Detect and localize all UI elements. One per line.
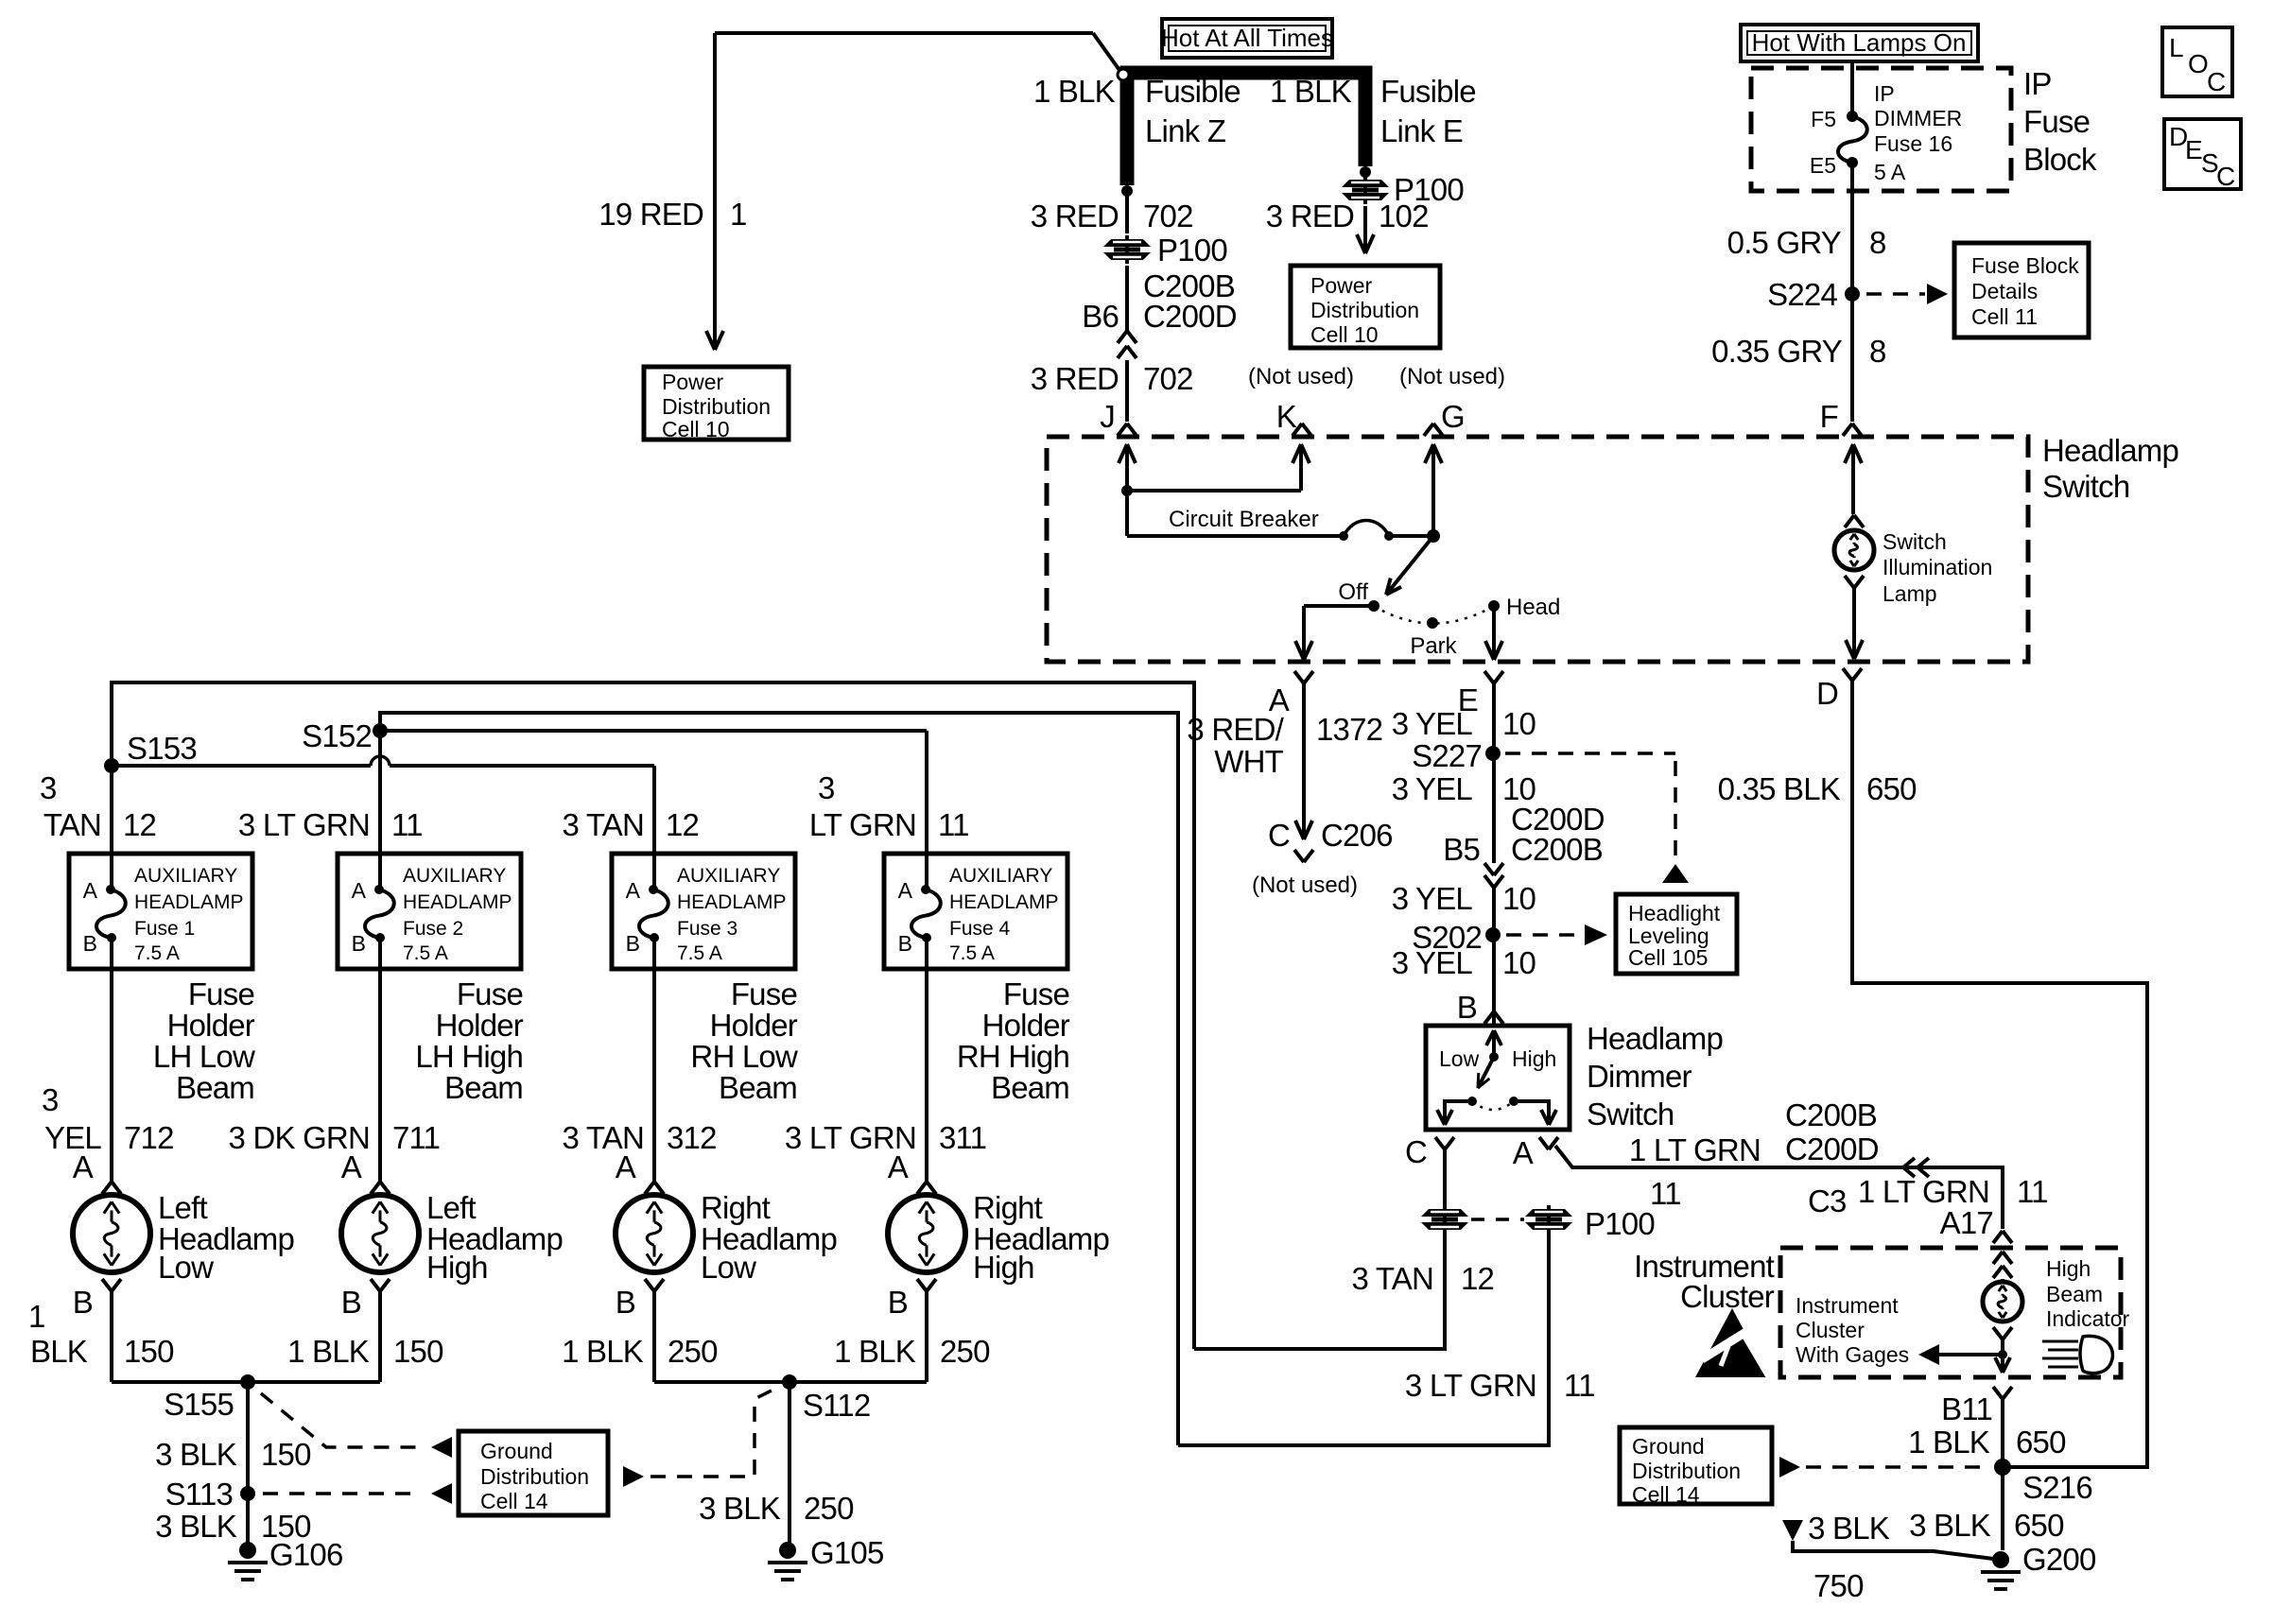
wire down to circuit breaker line bbox=[1125, 491, 1129, 536]
instrument cluster dashed outline bbox=[1780, 1248, 2121, 1377]
svg-text:WHT: WHT bbox=[1214, 744, 1283, 779]
wire from lamp to With Gages node bbox=[2001, 1339, 2004, 1369]
header box Hot At All Times bbox=[1162, 19, 1332, 58]
wire 1 BLK from headlamp 4 bbox=[925, 1291, 928, 1382]
svg-text:Headlamp: Headlamp bbox=[1587, 1021, 1723, 1056]
wire from fuse 1 to headlamp bbox=[110, 969, 113, 1182]
svg-text:12: 12 bbox=[123, 807, 156, 842]
terminal A17 chevron into cluster bbox=[1993, 1231, 2003, 1243]
wire Off contact to terminal A bbox=[1304, 604, 1374, 608]
splice S224 bbox=[1845, 286, 1860, 302]
svg-text:C200B: C200B bbox=[1785, 1097, 1877, 1132]
terminal F arrow inside switch bbox=[1851, 446, 1855, 514]
svg-text:Fuse 2: Fuse 2 bbox=[403, 918, 463, 940]
svg-text:3 BLK: 3 BLK bbox=[1909, 1508, 1991, 1543]
svg-text:Low: Low bbox=[701, 1250, 756, 1285]
svg-text:10: 10 bbox=[1502, 945, 1536, 980]
svg-text:Fuse Block: Fuse Block bbox=[1971, 253, 2079, 278]
svg-text:A: A bbox=[626, 878, 641, 903]
switch arm with arrowhead toward Off bbox=[1386, 536, 1433, 595]
svg-text:P100: P100 bbox=[1157, 233, 1227, 268]
svg-text:Holder: Holder bbox=[982, 1008, 1070, 1043]
svg-text:11: 11 bbox=[1564, 1368, 1595, 1403]
svg-text:Instrument: Instrument bbox=[1796, 1293, 1899, 1318]
svg-text:TAN: TAN bbox=[43, 807, 101, 842]
dashed reference from S227 to headlight leveling bbox=[1505, 752, 1675, 755]
terminal B11 chevron bbox=[1993, 1387, 2003, 1399]
dashed reference arrow to S216 bbox=[1779, 1457, 1800, 1477]
svg-text:3 RED: 3 RED bbox=[1266, 199, 1354, 233]
svg-text:3 LT GRN: 3 LT GRN bbox=[238, 807, 370, 842]
fuse holder box 4 AUXILIARY HEADLAMP Fuse 4 7.5 A bbox=[884, 854, 1067, 969]
wire Head contact to terminal E bbox=[1492, 606, 1496, 656]
wire from fuse 3 to headlamp bbox=[652, 969, 656, 1182]
svg-text:12: 12 bbox=[1461, 1261, 1494, 1296]
dimmer contacts low/high with dotted arc bbox=[1467, 1097, 1477, 1106]
terminal G arrow inside switch bbox=[1431, 446, 1435, 536]
svg-text:Switch: Switch bbox=[2042, 469, 2129, 504]
svg-text:3 BLK: 3 BLK bbox=[699, 1491, 781, 1526]
svg-text:Cell 14: Cell 14 bbox=[480, 1489, 548, 1513]
wire 19 RED circuit 1 feed from hot bus bbox=[715, 31, 1093, 35]
svg-text:(Not used): (Not used) bbox=[1252, 872, 1358, 898]
svg-text:Dimmer: Dimmer bbox=[1587, 1059, 1692, 1094]
svg-text:8: 8 bbox=[1869, 334, 1886, 369]
svg-text:Fusible: Fusible bbox=[1380, 74, 1476, 109]
svg-text:O: O bbox=[2188, 49, 2209, 78]
svg-text:1: 1 bbox=[730, 197, 747, 232]
dimmer switch arm pointing to low bbox=[1478, 1057, 1494, 1088]
svg-text:Cell 14: Cell 14 bbox=[1632, 1482, 1700, 1507]
dashed reference S113 to ground distribution bbox=[263, 1492, 416, 1495]
svg-text:1 BLK: 1 BLK bbox=[562, 1334, 644, 1369]
svg-text:3: 3 bbox=[42, 1082, 59, 1117]
svg-text:250: 250 bbox=[804, 1491, 854, 1526]
svg-text:B: B bbox=[888, 1285, 908, 1320]
wire 3 RED 702 lower to terminal J bbox=[1125, 360, 1129, 422]
svg-text:(Not used): (Not used) bbox=[1248, 364, 1354, 389]
svg-text:Holder: Holder bbox=[167, 1008, 255, 1043]
svg-text:LT GRN: LT GRN bbox=[809, 807, 916, 842]
svg-text:HEADLAMP: HEADLAMP bbox=[134, 891, 244, 913]
headlamp beam icon bbox=[2042, 1340, 2078, 1343]
svg-text:B: B bbox=[626, 931, 640, 956]
svg-text:Fuse: Fuse bbox=[457, 976, 523, 1011]
headlamp switch dashed outline bbox=[1047, 437, 2028, 662]
svg-text:150: 150 bbox=[124, 1334, 174, 1369]
dimmer low output to C bbox=[1445, 1101, 1472, 1121]
wire S153 to RH low beam column with hop bbox=[112, 764, 371, 768]
wire 3 BLK 150 S155 to S113 bbox=[246, 1382, 250, 1550]
svg-text:Headlamp: Headlamp bbox=[2042, 433, 2178, 468]
wire joining RH lamps grounds bbox=[654, 1380, 927, 1384]
svg-text:Power: Power bbox=[662, 370, 724, 394]
svg-text:3 RED: 3 RED bbox=[1031, 361, 1119, 396]
svg-text:S152: S152 bbox=[302, 718, 372, 753]
svg-text:Low: Low bbox=[158, 1250, 214, 1285]
fuse holder box 1 AUXILIARY HEADLAMP Fuse 1 7.5 A bbox=[69, 854, 252, 969]
svg-text:C: C bbox=[2207, 67, 2226, 96]
ground G200 bbox=[1992, 1551, 2009, 1568]
dashed reference arrow to fuse block details bbox=[1866, 292, 1925, 296]
splice S112 bbox=[782, 1374, 797, 1390]
svg-text:Indicator: Indicator bbox=[2046, 1306, 2130, 1331]
svg-text:Distribution: Distribution bbox=[1310, 298, 1419, 322]
svg-text:Holder: Holder bbox=[710, 1008, 798, 1043]
svg-text:Illumination: Illumination bbox=[1883, 555, 1992, 579]
contact Head bbox=[1488, 600, 1500, 612]
wire 1 BLK from headlamp 1 bbox=[110, 1291, 113, 1382]
svg-text:RH High: RH High bbox=[957, 1039, 1069, 1074]
svg-text:3 BLK: 3 BLK bbox=[155, 1509, 237, 1544]
svg-text:Circuit Breaker: Circuit Breaker bbox=[1169, 507, 1319, 532]
column 1 feed wire into fuse holder bbox=[110, 766, 113, 854]
svg-text:Switch: Switch bbox=[1883, 529, 1947, 554]
svg-text:Details: Details bbox=[1971, 279, 2038, 303]
splice S153 bbox=[104, 758, 119, 773]
svg-text:A: A bbox=[1513, 1135, 1534, 1170]
svg-text:Cell 11: Cell 11 bbox=[1971, 304, 2038, 329]
terminal J arrow inside switch bbox=[1125, 446, 1129, 491]
terminal C chevron bbox=[1435, 1137, 1445, 1149]
wire 3 BLK 250 S112 to G105 bbox=[788, 1382, 791, 1550]
box Ground Distribution Cell 14 (right) bbox=[1620, 1427, 1772, 1504]
svg-text:Link E: Link E bbox=[1380, 113, 1463, 148]
svg-text:C3: C3 bbox=[1808, 1183, 1847, 1218]
svg-text:C200D: C200D bbox=[1785, 1132, 1879, 1166]
wire from C to P100 bbox=[1443, 1149, 1447, 1206]
svg-text:8: 8 bbox=[1869, 225, 1886, 260]
svg-text:A: A bbox=[83, 878, 98, 903]
svg-text:250: 250 bbox=[940, 1334, 990, 1369]
dashed reference arrow to S112 bbox=[623, 1466, 644, 1487]
svg-text:5 A: 5 A bbox=[1874, 160, 1906, 184]
svg-text:D: D bbox=[1816, 676, 1838, 711]
svg-text:3: 3 bbox=[818, 770, 835, 805]
svg-text:Lamp: Lamp bbox=[1883, 581, 1937, 606]
splice S202 bbox=[1485, 927, 1501, 942]
svg-text:Headlight: Headlight bbox=[1628, 901, 1721, 925]
svg-text:Fuse: Fuse bbox=[731, 976, 797, 1011]
svg-text:BLK: BLK bbox=[30, 1334, 88, 1369]
column 2 feed wire into fuse holder bbox=[378, 731, 382, 854]
wire 0.5 GRY 8 from fuse to S224 bbox=[1850, 163, 1854, 422]
svg-text:150: 150 bbox=[261, 1437, 311, 1472]
svg-text:B: B bbox=[83, 931, 97, 956]
connector C200B/C200D in-line C3 on 1 LT GRN bbox=[1903, 1158, 1915, 1167]
svg-text:3 TAN: 3 TAN bbox=[1352, 1261, 1433, 1296]
node dot below fusible link Z bbox=[1121, 185, 1133, 197]
svg-text:12: 12 bbox=[666, 807, 699, 842]
wire 3 YEL 10 segment 3 bbox=[1492, 888, 1496, 1026]
fuse holder box 2 AUXILIARY HEADLAMP Fuse 2 7.5 A bbox=[338, 854, 521, 969]
svg-text:AUXILIARY: AUXILIARY bbox=[949, 865, 1052, 887]
svg-text:0.5 GRY: 0.5 GRY bbox=[1727, 225, 1842, 260]
wire 3 LT GRN 11 from P100 down-left to high-beam bus bbox=[1178, 1232, 1549, 1445]
connector P100 on 102 wire bbox=[1342, 176, 1389, 204]
svg-text:IP: IP bbox=[1874, 81, 1895, 106]
fuse holder box 3 AUXILIARY HEADLAMP Fuse 3 7.5 A bbox=[612, 854, 795, 969]
svg-text:3 LT GRN: 3 LT GRN bbox=[1405, 1368, 1536, 1403]
wire 3 YEL 10 segment 1 bbox=[1492, 683, 1496, 863]
svg-text:Cell 10: Cell 10 bbox=[1310, 322, 1379, 347]
svg-text:11: 11 bbox=[391, 807, 423, 842]
box Fuse Block Details Cell 11 bbox=[1954, 243, 2089, 337]
svg-text:Beam: Beam bbox=[2046, 1282, 2103, 1306]
svg-text:Hot At All Times: Hot At All Times bbox=[1161, 24, 1333, 52]
svg-text:102: 102 bbox=[1379, 199, 1429, 233]
connector C206 (not used) bbox=[1295, 821, 1304, 839]
svg-text:With Gages: With Gages bbox=[1796, 1342, 1909, 1367]
svg-text:A: A bbox=[352, 878, 367, 903]
svg-text:Fuse 16: Fuse 16 bbox=[1874, 131, 1952, 156]
wire 1 BLK from headlamp 2 bbox=[378, 1291, 382, 1382]
svg-text:Left: Left bbox=[426, 1190, 476, 1225]
svg-text:B11: B11 bbox=[1941, 1391, 1992, 1426]
svg-text:10: 10 bbox=[1502, 706, 1536, 741]
svg-text:AUXILIARY: AUXILIARY bbox=[134, 865, 237, 887]
svg-text:C200B: C200B bbox=[1511, 832, 1603, 867]
svg-text:S227: S227 bbox=[1412, 738, 1482, 773]
svg-text:S155: S155 bbox=[164, 1387, 234, 1422]
svg-text:712: 712 bbox=[124, 1120, 174, 1155]
svg-text:1 LT GRN: 1 LT GRN bbox=[1629, 1132, 1761, 1167]
svg-text:C206: C206 bbox=[1321, 818, 1393, 853]
box Power Distribution Cell 10 (right) bbox=[1291, 266, 1440, 348]
svg-text:Distribution: Distribution bbox=[662, 394, 771, 419]
wire from header into fuse block bbox=[1850, 61, 1854, 116]
svg-text:Park: Park bbox=[1410, 633, 1457, 659]
dashed link between P100 halves bbox=[1471, 1218, 1524, 1221]
svg-text:3 TAN: 3 TAN bbox=[563, 807, 644, 842]
svg-text:Right: Right bbox=[973, 1190, 1043, 1225]
svg-text:C: C bbox=[1405, 1134, 1427, 1169]
svg-text:Fuse 4: Fuse 4 bbox=[949, 918, 1011, 940]
node dot J to K bbox=[1121, 485, 1133, 496]
connector P100 low beam bbox=[1421, 1205, 1468, 1234]
svg-text:Fuse 3: Fuse 3 bbox=[677, 918, 737, 940]
svg-text:1 BLK: 1 BLK bbox=[1033, 74, 1116, 109]
svg-text:S153: S153 bbox=[127, 731, 197, 766]
svg-text:Fuse: Fuse bbox=[188, 976, 254, 1011]
svg-text:Distribution: Distribution bbox=[1632, 1459, 1741, 1483]
svg-text:F: F bbox=[1820, 399, 1838, 434]
header box Hot With Lamps On bbox=[1741, 25, 1978, 61]
svg-text:HEADLAMP: HEADLAMP bbox=[403, 891, 512, 913]
svg-text:312: 312 bbox=[667, 1120, 717, 1155]
svg-text:E: E bbox=[2185, 135, 2203, 164]
svg-text:High: High bbox=[426, 1250, 488, 1285]
svg-text:Low: Low bbox=[1439, 1046, 1480, 1071]
svg-text:A17: A17 bbox=[1940, 1205, 1993, 1240]
wire to C200 connector bbox=[1125, 266, 1129, 331]
svg-text:S113: S113 bbox=[165, 1477, 233, 1512]
IP fuse block dashed outline bbox=[1751, 68, 2011, 191]
svg-text:P100: P100 bbox=[1585, 1206, 1655, 1241]
svg-text:Hot With Lamps On: Hot With Lamps On bbox=[1752, 28, 1967, 57]
svg-text:7.5 A: 7.5 A bbox=[403, 942, 448, 964]
svg-text:B: B bbox=[73, 1285, 93, 1320]
svg-text:C: C bbox=[2216, 162, 2235, 191]
legend box LOC bbox=[2162, 27, 2232, 96]
terminal A chevron of dimmer bbox=[1539, 1137, 1549, 1149]
svg-text:(Not used): (Not used) bbox=[1399, 364, 1505, 389]
svg-text:B: B bbox=[1457, 990, 1477, 1025]
svg-text:G: G bbox=[1441, 399, 1465, 434]
svg-text:Cluster: Cluster bbox=[1680, 1279, 1775, 1314]
connector P100 on 702 wire bbox=[1103, 235, 1151, 264]
svg-text:Off: Off bbox=[1338, 579, 1368, 605]
svg-text:Beam: Beam bbox=[176, 1070, 254, 1105]
svg-text:3 YEL: 3 YEL bbox=[1392, 945, 1473, 980]
node pivot of headlamp switch bbox=[1427, 529, 1440, 543]
fuse IP DIMMER Fuse 16 5A terminals F5/E5 bbox=[1847, 111, 1858, 122]
arrow down to power distribution (left) bbox=[713, 329, 717, 346]
svg-text:3 YEL: 3 YEL bbox=[1392, 881, 1473, 916]
circuit breaker bbox=[1127, 534, 1344, 538]
svg-text:Block: Block bbox=[2023, 142, 2097, 177]
svg-text:0.35 GRY: 0.35 GRY bbox=[1711, 334, 1843, 369]
wire from fuse 2 to headlamp bbox=[378, 969, 382, 1182]
svg-text:High: High bbox=[2046, 1256, 2091, 1281]
svg-text:Ground: Ground bbox=[1632, 1434, 1705, 1459]
svg-text:Holder: Holder bbox=[436, 1008, 524, 1043]
wire 3 BLK 750 stub bbox=[1782, 1520, 1803, 1541]
svg-text:711: 711 bbox=[392, 1120, 440, 1155]
svg-text:IP: IP bbox=[2023, 66, 2052, 101]
svg-text:J: J bbox=[1100, 399, 1115, 434]
svg-text:Power: Power bbox=[1310, 273, 1373, 298]
svg-text:AUXILIARY: AUXILIARY bbox=[677, 865, 780, 887]
svg-text:3 RED: 3 RED bbox=[1031, 199, 1119, 233]
svg-text:1 BLK: 1 BLK bbox=[1270, 74, 1352, 109]
svg-text:Fuse 1: Fuse 1 bbox=[134, 918, 195, 940]
svg-text:Left: Left bbox=[158, 1190, 207, 1225]
svg-text:250: 250 bbox=[668, 1334, 718, 1369]
node open circle at bus corner bbox=[1118, 69, 1129, 80]
dotted travel arc Off-Park-Head bbox=[1374, 606, 1494, 624]
svg-text:Beam: Beam bbox=[444, 1070, 523, 1105]
terminal E chevron bbox=[1484, 671, 1494, 683]
svg-text:11: 11 bbox=[1650, 1176, 1681, 1211]
svg-text:A: A bbox=[898, 878, 913, 903]
node With Gages tap bbox=[1998, 1350, 2007, 1359]
svg-text:B: B bbox=[341, 1285, 361, 1320]
splice S155 bbox=[240, 1374, 255, 1390]
high beam bus vertical and top run to S152 bbox=[380, 713, 1178, 1445]
splice S227 bbox=[1485, 746, 1501, 761]
svg-text:702: 702 bbox=[1143, 199, 1193, 233]
svg-text:S112: S112 bbox=[803, 1388, 870, 1423]
connector P100 high beam bbox=[1525, 1205, 1572, 1234]
svg-text:7.5 A: 7.5 A bbox=[677, 942, 722, 964]
ground G105 bbox=[779, 1542, 796, 1559]
ESD sensitive device symbol bbox=[1695, 1308, 1769, 1377]
svg-text:7.5 A: 7.5 A bbox=[949, 942, 995, 964]
svg-text:G105: G105 bbox=[810, 1535, 884, 1570]
svg-text:650: 650 bbox=[2016, 1425, 2066, 1460]
ground G106 bbox=[239, 1542, 256, 1559]
svg-text:0.35 BLK: 0.35 BLK bbox=[1718, 771, 1841, 806]
svg-text:Cell 10: Cell 10 bbox=[662, 417, 730, 441]
svg-text:Right: Right bbox=[701, 1190, 771, 1225]
svg-text:1: 1 bbox=[28, 1299, 45, 1334]
box Ground Distribution Cell 14 (left) bbox=[459, 1431, 608, 1515]
svg-text:C200D: C200D bbox=[1143, 299, 1237, 334]
wire S152 to RH high beam column bbox=[380, 729, 927, 733]
legend box DESC bbox=[2164, 119, 2241, 189]
dimmer high output to A bbox=[1514, 1101, 1549, 1121]
svg-text:DIMMER: DIMMER bbox=[1874, 106, 1962, 130]
svg-text:B: B bbox=[352, 931, 366, 956]
hot feed bus bar (heavy) bbox=[1127, 73, 1365, 185]
svg-text:G106: G106 bbox=[269, 1537, 343, 1572]
svg-text:3 YEL: 3 YEL bbox=[1392, 771, 1473, 806]
svg-text:11: 11 bbox=[938, 807, 969, 842]
svg-text:702: 702 bbox=[1143, 361, 1193, 396]
svg-text:19 RED: 19 RED bbox=[599, 197, 703, 232]
svg-text:K: K bbox=[1276, 399, 1297, 434]
svg-text:AUXILIARY: AUXILIARY bbox=[403, 865, 506, 887]
box Headlight Leveling Cell 105 bbox=[1616, 894, 1737, 974]
terminal D chevron bbox=[1843, 668, 1852, 681]
wire 3 RED 102 with arrow to power distribution (right) bbox=[1363, 206, 1367, 250]
wire 1 BLK from headlamp 3 bbox=[652, 1291, 656, 1382]
svg-text:L: L bbox=[2169, 33, 2184, 62]
svg-text:3 BLK: 3 BLK bbox=[155, 1437, 237, 1472]
box Power Distribution Cell 10 (left) bbox=[644, 367, 789, 440]
dashed reference arrow S202 to headlight leveling bbox=[1506, 933, 1577, 937]
svg-text:3 BLK: 3 BLK bbox=[1808, 1511, 1890, 1546]
svg-text:Ground: Ground bbox=[480, 1439, 553, 1463]
svg-text:Beam: Beam bbox=[991, 1070, 1069, 1105]
svg-text:1 BLK: 1 BLK bbox=[1908, 1425, 1990, 1460]
contact Park bbox=[1427, 617, 1438, 629]
svg-text:HEADLAMP: HEADLAMP bbox=[949, 891, 1059, 913]
arrow exiting cluster at B11 bbox=[1995, 1357, 2003, 1373]
splice S216 bbox=[1994, 1459, 2011, 1476]
svg-text:Cluster: Cluster bbox=[1796, 1318, 1865, 1342]
svg-text:G200: G200 bbox=[2022, 1542, 2096, 1577]
svg-text:650: 650 bbox=[1866, 771, 1917, 806]
arrow left to With Gages bbox=[1937, 1353, 2003, 1356]
svg-text:Fuse: Fuse bbox=[1003, 976, 1069, 1011]
wire 1 LT GRN 11 from dimmer A to instrument cluster bbox=[1555, 1146, 2003, 1229]
svg-text:LH Low: LH Low bbox=[153, 1039, 255, 1074]
svg-text:3: 3 bbox=[40, 770, 57, 805]
svg-text:Fusible: Fusible bbox=[1145, 74, 1241, 109]
switch illumination lamp bbox=[1845, 515, 1854, 527]
svg-text:S216: S216 bbox=[2022, 1470, 2092, 1505]
svg-text:1 BLK: 1 BLK bbox=[834, 1334, 916, 1369]
terminal K chevron and label bbox=[1293, 423, 1302, 436]
wire J to K inside switch bbox=[1127, 489, 1301, 492]
svg-text:750: 750 bbox=[1813, 1568, 1864, 1603]
wire from fuse 4 to headlamp bbox=[925, 969, 928, 1182]
svg-text:Switch: Switch bbox=[1587, 1097, 1674, 1132]
splice S113 bbox=[240, 1486, 255, 1501]
svg-text:Beam: Beam bbox=[719, 1070, 797, 1105]
svg-text:Cell 105: Cell 105 bbox=[1628, 945, 1708, 970]
wire 0.35 BLK 650 route from headlamp switch D bbox=[1852, 677, 2147, 1467]
svg-text:1372: 1372 bbox=[1316, 712, 1382, 747]
svg-text:1 BLK: 1 BLK bbox=[287, 1334, 370, 1369]
svg-text:650: 650 bbox=[2014, 1508, 2064, 1543]
svg-text:Distribution: Distribution bbox=[480, 1464, 589, 1489]
wire 3 RED/WHT 1372 to C206 bbox=[1302, 683, 1306, 836]
svg-text:7.5 A: 7.5 A bbox=[134, 942, 180, 964]
svg-text:B: B bbox=[616, 1285, 635, 1320]
